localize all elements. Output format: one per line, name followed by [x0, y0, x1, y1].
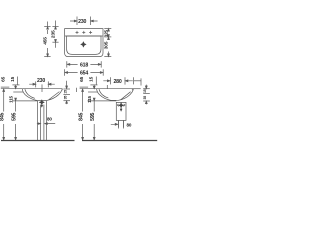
basin inner wall left right-view [99, 89, 108, 98]
right chain tick 2 [63, 94, 70, 96]
pedestal outline [38, 101, 47, 140]
basin outer profile right [97, 89, 134, 100]
ext tick x141 [140, 78, 142, 85]
svg-text:845: 845 [78, 112, 84, 120]
box inner tab right [123, 104, 125, 106]
svg-text:15: 15 [63, 90, 67, 94]
chain bottom arrow [66, 101, 68, 104]
dim 618 line [67, 64, 101, 66]
dim 230 left arrow [70, 20, 77, 22]
dim 595 line [15, 98, 17, 140]
dim 618 ext tick right [100, 61, 102, 67]
dim 618 ext tick left [66, 61, 68, 67]
floor line right [82, 140, 157, 142]
svg-text:595: 595 [11, 112, 17, 120]
right chain end tick [76, 88, 78, 92]
dim 235 line [55, 21, 57, 48]
floor line left [1, 140, 75, 142]
rim ext to chain [132, 88, 140, 90]
svg-text:65: 65 [0, 76, 6, 81]
svg-text:845: 845 [0, 112, 6, 120]
dim 654 ext tick left [64, 69, 66, 75]
dim 115 arrows [15, 85, 17, 89]
dim 280 left arrow [103, 80, 110, 82]
svg-text:65: 65 [79, 76, 85, 81]
basin outer profile [22, 89, 62, 101]
tap deck line [65, 35, 103, 37]
tick under 15 right view [90, 84, 97, 86]
svg-text:305: 305 [104, 41, 110, 49]
svg-text:115: 115 [9, 95, 14, 102]
tap ext tick right [47, 81, 49, 87]
centerline tick [41, 84, 43, 92]
tap hole center [82, 31, 85, 34]
dim 305 line [108, 37, 110, 56]
tap ext tick right view [106, 85, 108, 89]
dim 455 line [47, 22, 49, 57]
tick beside 15 [17, 77, 19, 85]
svg-text:80: 80 [47, 116, 52, 121]
dim 80 tick a [117, 121, 119, 127]
pipe stub [118, 120, 123, 128]
dim 80 tick b [123, 121, 125, 127]
dim 125 ext tick top [104, 28, 111, 30]
svg-text:595: 595 [90, 112, 96, 120]
dim 305 bottom tick [104, 56, 111, 58]
tick beside 15 right view [95, 77, 97, 85]
dim 654 ext tick right [102, 69, 104, 75]
svg-text:230: 230 [78, 19, 86, 25]
svg-text:618: 618 [80, 62, 88, 68]
ext line basin bottom left [13, 100, 38, 102]
dim 115 arrows right view [93, 85, 95, 89]
dim 845 line right view [82, 89, 84, 140]
svg-text:15: 15 [89, 76, 95, 81]
right chain vline right view [145, 85, 147, 89]
dim 230 right arrow (front) [48, 83, 54, 85]
basin inner diagonal right-view [121, 92, 131, 100]
chain tick 1 right view [143, 88, 150, 90]
chain bottom arrow right view [145, 101, 147, 104]
chain tick 2 right view [143, 93, 150, 95]
dim 455 bottom tick [44, 56, 50, 58]
dim 280 tick 2 [124, 77, 126, 84]
ext line rim right view [80, 88, 97, 90]
dim 230 left arrow (front) [29, 83, 35, 85]
ext line basin bottom right view [88, 100, 117, 102]
svg-text:35: 35 [63, 96, 67, 100]
svg-text:15: 15 [10, 76, 16, 81]
ext line ledge right view [88, 91, 98, 93]
dim 595 line right view [93, 98, 95, 140]
dim 654 line [65, 72, 103, 74]
dim 280 label ticks [109, 77, 111, 84]
ext tick x133 [133, 77, 135, 84]
dim 280 right arrow [125, 80, 133, 82]
svg-text:35: 35 [143, 96, 147, 100]
dim 125 mid tick [104, 36, 111, 38]
dim 80 right view [111, 123, 118, 125]
svg-text:455: 455 [43, 37, 49, 45]
svg-text:280: 280 [113, 79, 121, 85]
dim 125 line (plan right) [108, 29, 110, 37]
dim 455 top tick [44, 26, 50, 28]
drain symbol plan [81, 42, 87, 48]
basin inner diagonal right [49, 92, 60, 100]
svg-text:235: 235 [51, 30, 57, 38]
tick under 65 right view [80, 86, 89, 88]
chain tick 3 right view [143, 100, 150, 102]
tap hole right [89, 31, 92, 34]
dim 235 top tick [52, 26, 58, 28]
tick under 15 [12, 84, 19, 86]
drain symbol right view [118, 103, 123, 112]
svg-text:115: 115 [87, 95, 92, 102]
inner bowl outline [67, 36, 101, 54]
semi-pedestal box [116, 102, 126, 120]
rim line right view [97, 89, 133, 91]
dim 230 extension tick right [90, 17, 92, 26]
right chain tick 1 [63, 88, 70, 90]
washbasin outer rim rectangle [65, 29, 103, 57]
tap hole left [76, 31, 79, 34]
svg-text:230: 230 [37, 78, 45, 84]
right chain tick 3 [63, 100, 70, 102]
drain pipe [41, 105, 44, 140]
tick under 65 [1, 86, 10, 88]
ext line ledge left [13, 91, 23, 93]
ext line rim left [1, 88, 23, 90]
svg-text:15: 15 [143, 89, 147, 93]
drain symbol front-left [39, 100, 44, 108]
basin inner wall left [25, 89, 35, 98]
tap ext tick left [35, 81, 37, 87]
svg-text:125: 125 [104, 29, 109, 37]
dim 230 right arrow [91, 20, 98, 22]
right chain vline top arrow [66, 81, 68, 89]
dim 235 bottom tick [52, 41, 58, 43]
dim 230 extension tick left [76, 17, 78, 26]
rim line [22, 89, 62, 91]
dim 845 line [3, 89, 5, 140]
svg-text:80: 80 [127, 122, 132, 127]
svg-text:654: 654 [80, 71, 88, 77]
ext line to right [134, 80, 141, 82]
dim 80 label leader [37, 123, 55, 125]
box inner tab left [117, 104, 119, 106]
